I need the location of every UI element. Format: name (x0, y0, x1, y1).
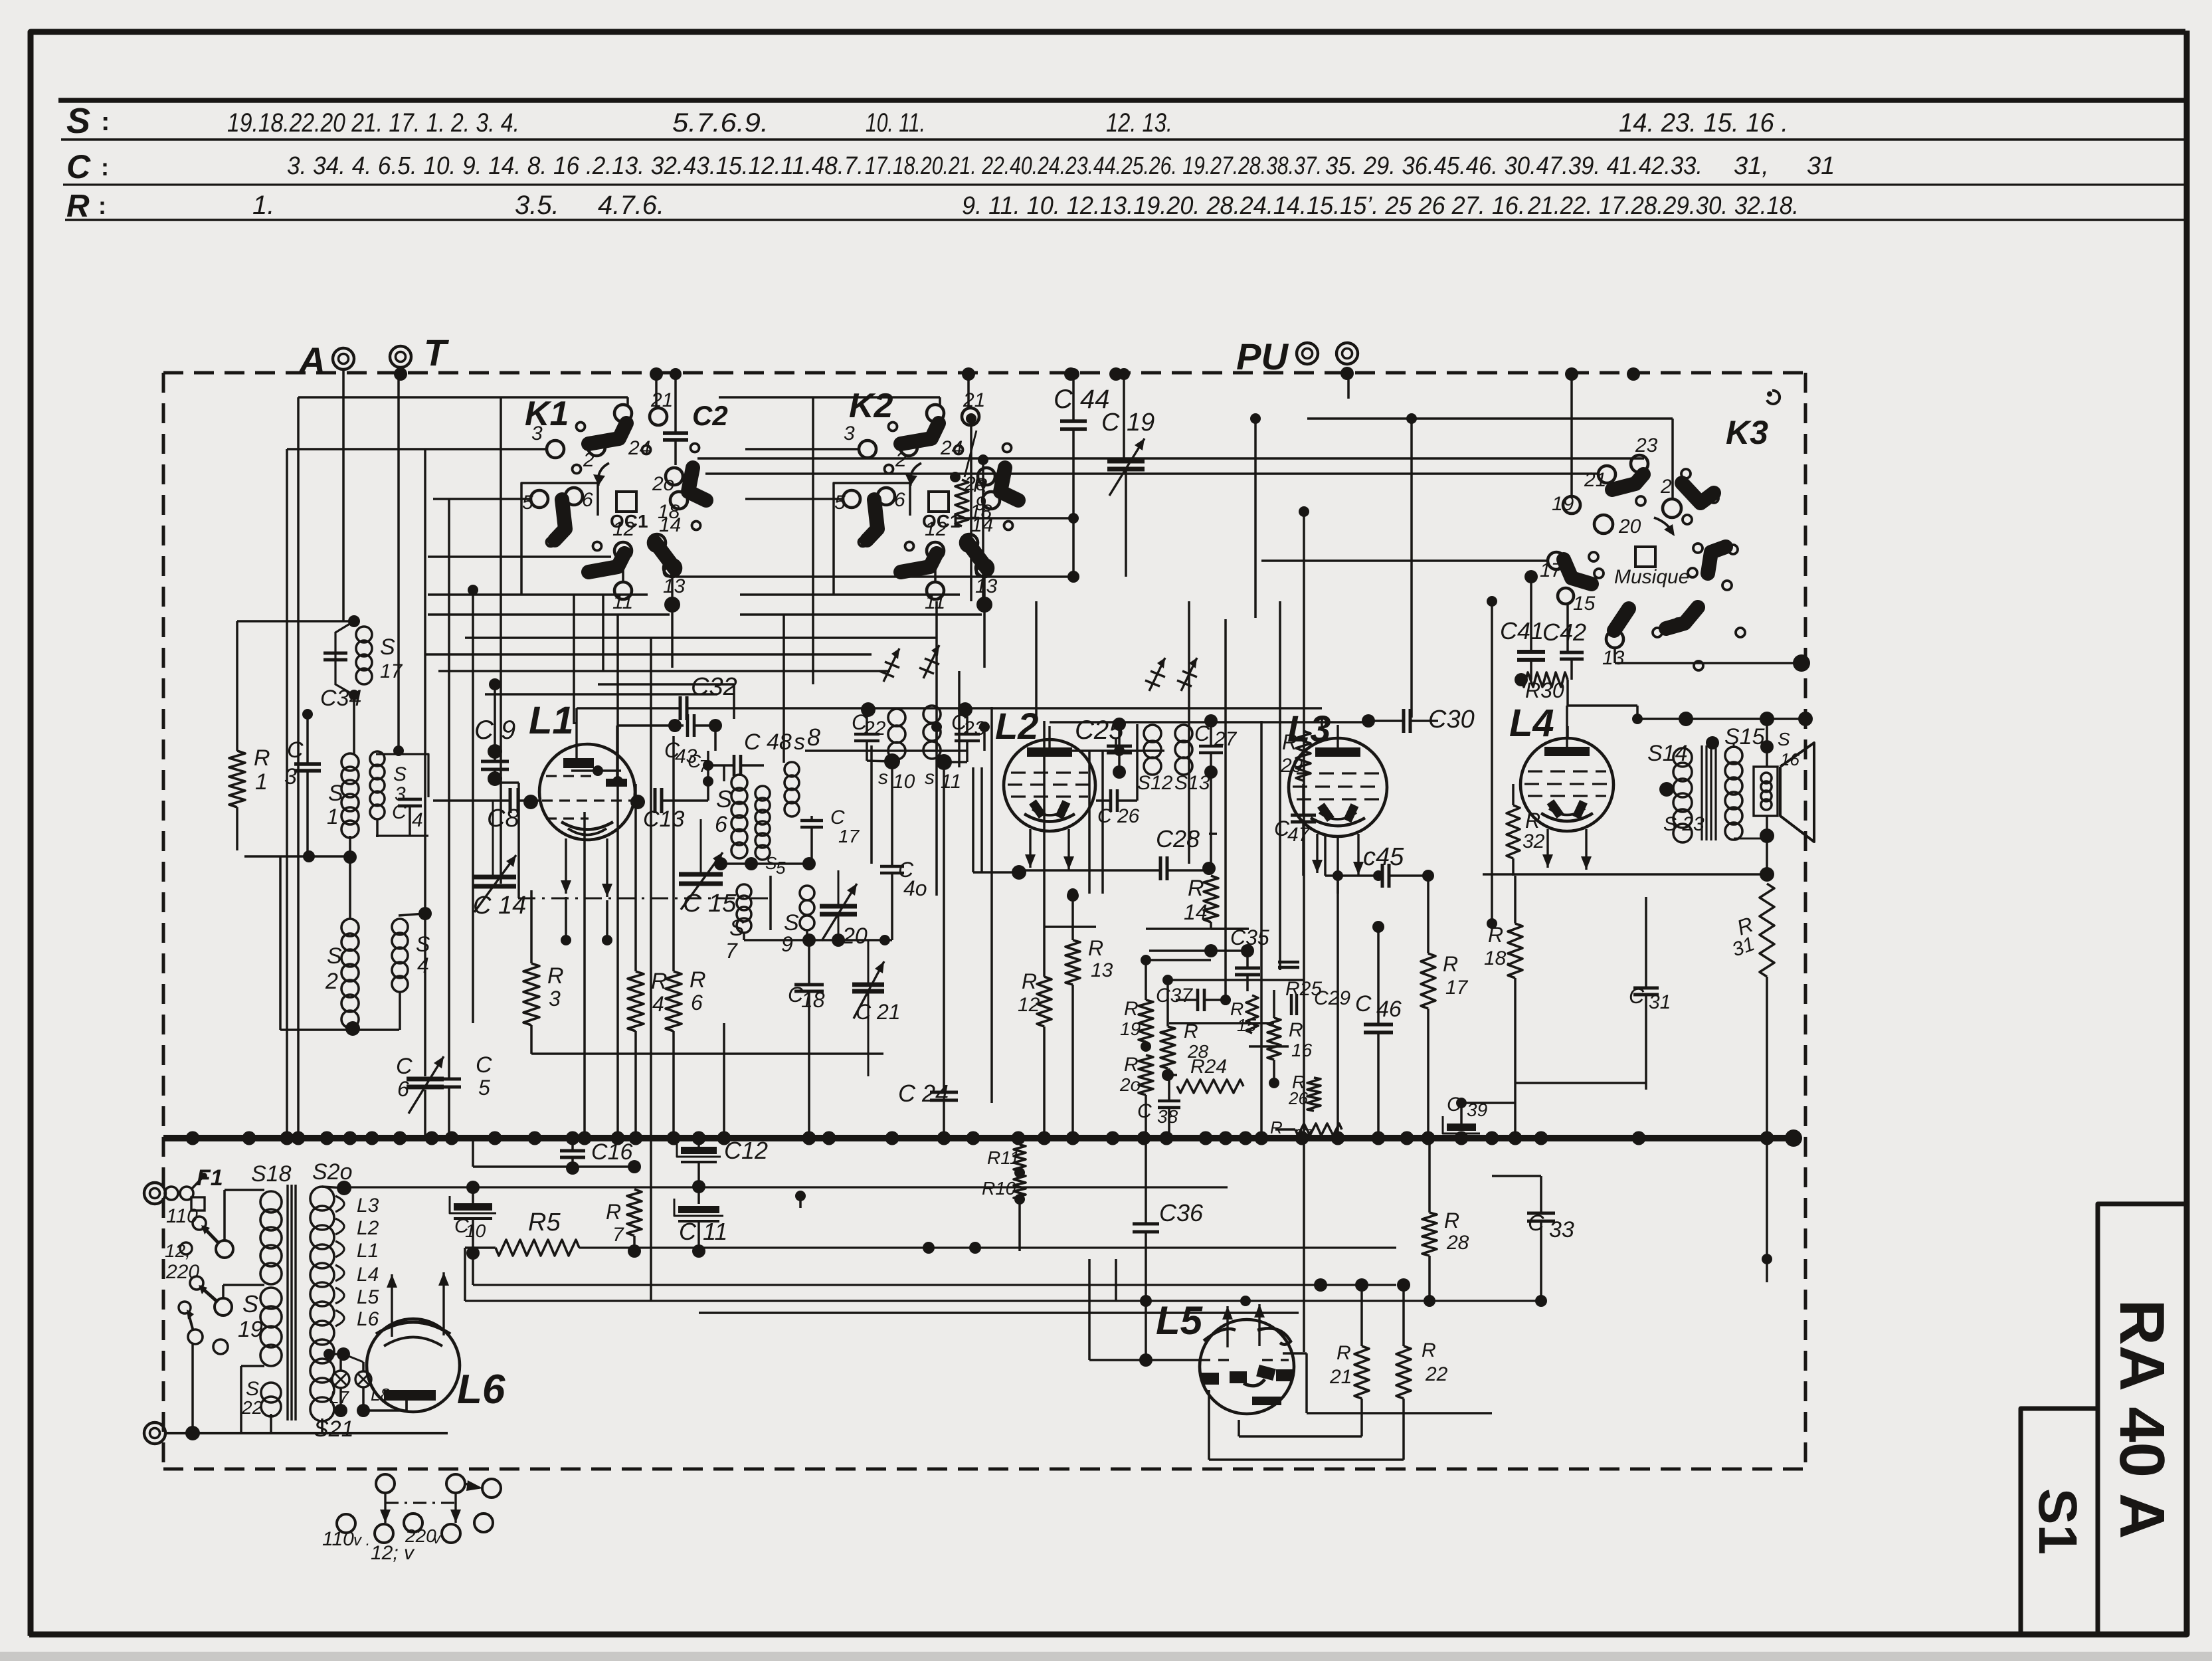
svg-text:C 19: C 19 (1101, 409, 1154, 437)
svg-text:C30: C30 (1428, 706, 1475, 733)
svg-text:C: C (66, 148, 91, 185)
svg-text:10: 10 (893, 771, 915, 793)
svg-text:R: R (66, 189, 90, 224)
svg-text:13: 13 (1602, 647, 1625, 669)
svg-text:3: 3 (284, 764, 297, 789)
svg-text:1: 1 (327, 805, 339, 829)
svg-text:3: 3 (844, 423, 855, 444)
svg-text:21: 21 (963, 389, 985, 411)
svg-text:K3: K3 (1726, 414, 1768, 451)
svg-text:C: C (287, 737, 304, 763)
svg-text:6: 6 (894, 489, 905, 511)
svg-text:2o: 2o (652, 473, 674, 495)
svg-text:C 14: C 14 (473, 892, 526, 920)
svg-text:S: S (393, 763, 407, 785)
svg-text:R5: R5 (528, 1209, 561, 1236)
svg-text:S12: S12 (1137, 772, 1173, 794)
svg-text:21: 21 (1584, 469, 1606, 491)
svg-text:5: 5 (522, 492, 533, 514)
svg-text:S: S (1778, 729, 1790, 749)
svg-text:110: 110 (322, 1528, 354, 1550)
svg-text:S: S (242, 1290, 258, 1318)
svg-text:R: R (1282, 730, 1297, 754)
svg-text:R: R (1022, 969, 1037, 993)
svg-text:5: 5 (478, 1076, 490, 1100)
svg-text:7: 7 (699, 756, 709, 776)
svg-text:9. 11. 10. 12.13.19.20. 28.24.: 9. 11. 10. 12.13.19.20. 28.24.14.15.15’.… (962, 192, 1525, 220)
svg-text:3.5.: 3.5. (515, 191, 559, 220)
svg-text:C 15: C 15 (683, 890, 737, 918)
svg-text:L1: L1 (357, 1240, 379, 1262)
svg-text:21.22. 17.28.29.30. 32.18.: 21.22. 17.28.29.30. 32.18. (1527, 192, 1799, 220)
svg-text:s: s (794, 730, 805, 755)
svg-text:L5: L5 (357, 1286, 379, 1308)
svg-text:17: 17 (838, 826, 860, 846)
svg-text:C: C (476, 1052, 492, 1078)
svg-text:s: s (878, 767, 888, 789)
svg-text:Musique: Musique (1614, 566, 1689, 588)
svg-text:13: 13 (663, 575, 686, 597)
svg-text:PU: PU (1236, 336, 1289, 377)
svg-text:A: A (298, 340, 325, 381)
svg-text:C: C (1355, 991, 1372, 1017)
svg-text:R: R (1336, 1342, 1351, 1364)
svg-text:T: T (424, 332, 450, 373)
svg-text:9: 9 (781, 932, 793, 956)
svg-text:L3: L3 (357, 1195, 379, 1217)
svg-text:S15: S15 (1724, 724, 1765, 749)
svg-text:v .: v . (353, 1531, 370, 1549)
svg-text:C: C (1137, 1100, 1152, 1122)
svg-text:3. 34. 4. 6.5. 10. 9. 14. 8.: 3. 34. 4. 6.5. 10. 9. 14. 8. 16 .2.13. 3… (287, 152, 864, 180)
svg-text:10: 10 (465, 1221, 486, 1241)
svg-text:R: R (1422, 1339, 1436, 1361)
svg-text:R: R (1124, 1054, 1139, 1076)
svg-text:29: 29 (1280, 755, 1303, 777)
svg-text:s: s (925, 767, 935, 789)
svg-text:R: R (1444, 1209, 1459, 1232)
svg-text:31,: 31, (1734, 152, 1769, 180)
svg-text:28: 28 (1446, 1232, 1469, 1254)
svg-text:12. 13.: 12. 13. (1106, 108, 1172, 138)
svg-text:L8: L8 (371, 1385, 390, 1405)
svg-text:38: 38 (1157, 1106, 1178, 1127)
svg-text:S: S (66, 101, 90, 141)
svg-text:2: 2 (325, 969, 338, 994)
svg-text:14: 14 (659, 514, 681, 536)
svg-text:R: R (651, 969, 668, 994)
svg-text::: : (98, 192, 106, 219)
svg-text:R: R (690, 967, 706, 993)
svg-text:24: 24 (628, 437, 650, 459)
svg-text:5: 5 (776, 858, 786, 878)
svg-text:R: R (1289, 1019, 1303, 1041)
svg-text:10. 11.: 10. 11. (866, 108, 925, 138)
svg-text:19.18.22.20 21. 17. 1. 2. 3. 4: 19.18.22.20 21. 17. 1. 2. 3. 4. (227, 108, 519, 138)
svg-text:15: 15 (1573, 593, 1596, 615)
svg-text:S: S (380, 635, 395, 660)
svg-text:9: 9 (975, 493, 986, 515)
svg-text:20: 20 (842, 924, 868, 949)
svg-text:3: 3 (531, 423, 543, 444)
svg-text:L4: L4 (357, 1264, 379, 1286)
svg-text:C: C (396, 1054, 413, 1079)
svg-text:L2: L2 (995, 705, 1038, 747)
svg-text:2o: 2o (1119, 1074, 1141, 1095)
svg-text:17.18.20.21. 22.40.24.23.44.25: 17.18.20.21. 22.40.24.23.44.25.26. 19.27… (865, 152, 1322, 180)
svg-text:R: R (606, 1200, 621, 1224)
svg-text:18.: 18. (1484, 947, 1512, 969)
svg-text:R24: R24 (1190, 1056, 1227, 1078)
svg-text:31: 31 (1807, 152, 1835, 180)
svg-text:6: 6 (715, 812, 727, 837)
svg-text:R: R (1188, 876, 1204, 901)
svg-text:S1: S1 (2027, 1488, 2088, 1555)
svg-text:35. 29. 36.45.46. 30.47.39. 41: 35. 29. 36.45.46. 30.47.39. 41.42.33. (1325, 152, 1703, 180)
svg-text:S: S (729, 916, 745, 941)
svg-text:S14: S14 (1647, 741, 1688, 766)
svg-text:19: 19 (1120, 1019, 1141, 1039)
svg-text:4o: 4o (903, 876, 927, 900)
svg-text:4.7.6.: 4.7.6. (598, 191, 664, 220)
svg-text:C13: C13 (643, 807, 684, 832)
svg-text:L2: L2 (357, 1217, 379, 1239)
svg-text:4: 4 (412, 809, 423, 831)
svg-text:R: R (254, 745, 270, 771)
svg-text:C16: C16 (591, 1139, 632, 1165)
svg-text:19: 19 (238, 1317, 263, 1342)
svg-text:21: 21 (650, 389, 673, 411)
svg-text:C: C (392, 801, 407, 823)
svg-text:L5: L5 (1156, 1298, 1204, 1343)
svg-text:L6: L6 (357, 1308, 379, 1330)
svg-text:C2: C2 (692, 400, 728, 431)
svg-text:C41: C41 (1500, 617, 1544, 644)
svg-text:S: S (716, 785, 732, 813)
svg-text:4: 4 (417, 953, 429, 977)
svg-text:C37: C37 (1156, 985, 1193, 1007)
svg-text:C 21: C 21 (856, 1000, 901, 1024)
svg-text:S13: S13 (1174, 772, 1210, 794)
svg-text:220: 220 (405, 1525, 436, 1546)
svg-text:L1: L1 (529, 699, 574, 742)
svg-text:R: R (1443, 952, 1458, 976)
svg-text:L6: L6 (457, 1367, 506, 1413)
svg-text:1.: 1. (252, 191, 274, 220)
svg-text:7: 7 (612, 1224, 624, 1246)
svg-text:1: 1 (255, 769, 268, 795)
svg-text:21: 21 (1329, 1366, 1352, 1388)
svg-text:R: R (1124, 998, 1139, 1020)
svg-text:S21: S21 (314, 1417, 354, 1442)
svg-text:R: R (1270, 1118, 1283, 1137)
svg-text:4: 4 (652, 992, 664, 1016)
svg-text:K2: K2 (849, 387, 893, 425)
svg-text:S: S (328, 781, 343, 806)
svg-text:S: S (327, 943, 342, 969)
svg-text:220: 220 (165, 1261, 199, 1283)
svg-text:5: 5 (834, 492, 846, 514)
svg-text:S: S (416, 932, 430, 956)
svg-text:R: R (1525, 809, 1540, 832)
svg-text:12,: 12, (165, 1240, 191, 1261)
svg-text:7: 7 (725, 939, 738, 963)
svg-text:22: 22 (1425, 1363, 1448, 1385)
svg-text:R30: R30 (1525, 678, 1564, 702)
svg-text:OC1: OC1 (610, 511, 648, 532)
svg-text:R: R (1088, 936, 1103, 960)
svg-text:R: R (547, 963, 564, 989)
svg-text:14. 23. 15. 16 .: 14. 23. 15. 16 . (1619, 108, 1788, 138)
svg-text:13: 13 (975, 575, 998, 597)
svg-text:23: 23 (1635, 435, 1658, 456)
svg-text:C12: C12 (724, 1137, 768, 1164)
svg-text:8: 8 (807, 724, 820, 751)
svg-text:6: 6 (582, 489, 593, 511)
svg-text:46: 46 (1376, 997, 1402, 1022)
svg-text:C36: C36 (1159, 1199, 1204, 1226)
svg-text:L4: L4 (1509, 702, 1554, 745)
svg-text:26: 26 (1288, 1088, 1308, 1108)
svg-text:S 23: S 23 (1663, 813, 1705, 835)
svg-text::: : (101, 153, 109, 181)
svg-text:RA 40 A: RA 40 A (2106, 1300, 2177, 1539)
svg-text:24: 24 (940, 437, 963, 459)
svg-text:2: 2 (895, 449, 907, 471)
svg-text:16: 16 (1291, 1040, 1313, 1060)
svg-text:22: 22 (241, 1397, 263, 1418)
svg-text:17: 17 (1445, 977, 1469, 999)
svg-text:20: 20 (1618, 516, 1641, 537)
svg-text:S18: S18 (251, 1161, 292, 1187)
svg-text:F1: F1 (197, 1165, 223, 1191)
svg-text:2: 2 (583, 449, 595, 471)
svg-text::: : (101, 107, 110, 136)
svg-text:C42: C42 (1542, 619, 1586, 646)
svg-text:3: 3 (549, 987, 561, 1011)
svg-text:13: 13 (1091, 959, 1113, 981)
svg-text:C32: C32 (691, 673, 737, 701)
svg-text:S2o: S2o (312, 1159, 353, 1185)
svg-text:32: 32 (1522, 830, 1545, 852)
svg-text:5.7.6.9.: 5.7.6.9. (672, 108, 769, 138)
svg-text:C28: C28 (1156, 825, 1200, 852)
svg-text:C8: C8 (487, 805, 519, 832)
svg-text:47: 47 (1287, 824, 1311, 846)
svg-text:2: 2 (1660, 476, 1672, 498)
svg-text:C29: C29 (1314, 987, 1350, 1009)
svg-text:12: 12 (1018, 994, 1040, 1016)
svg-text:6: 6 (691, 991, 703, 1015)
